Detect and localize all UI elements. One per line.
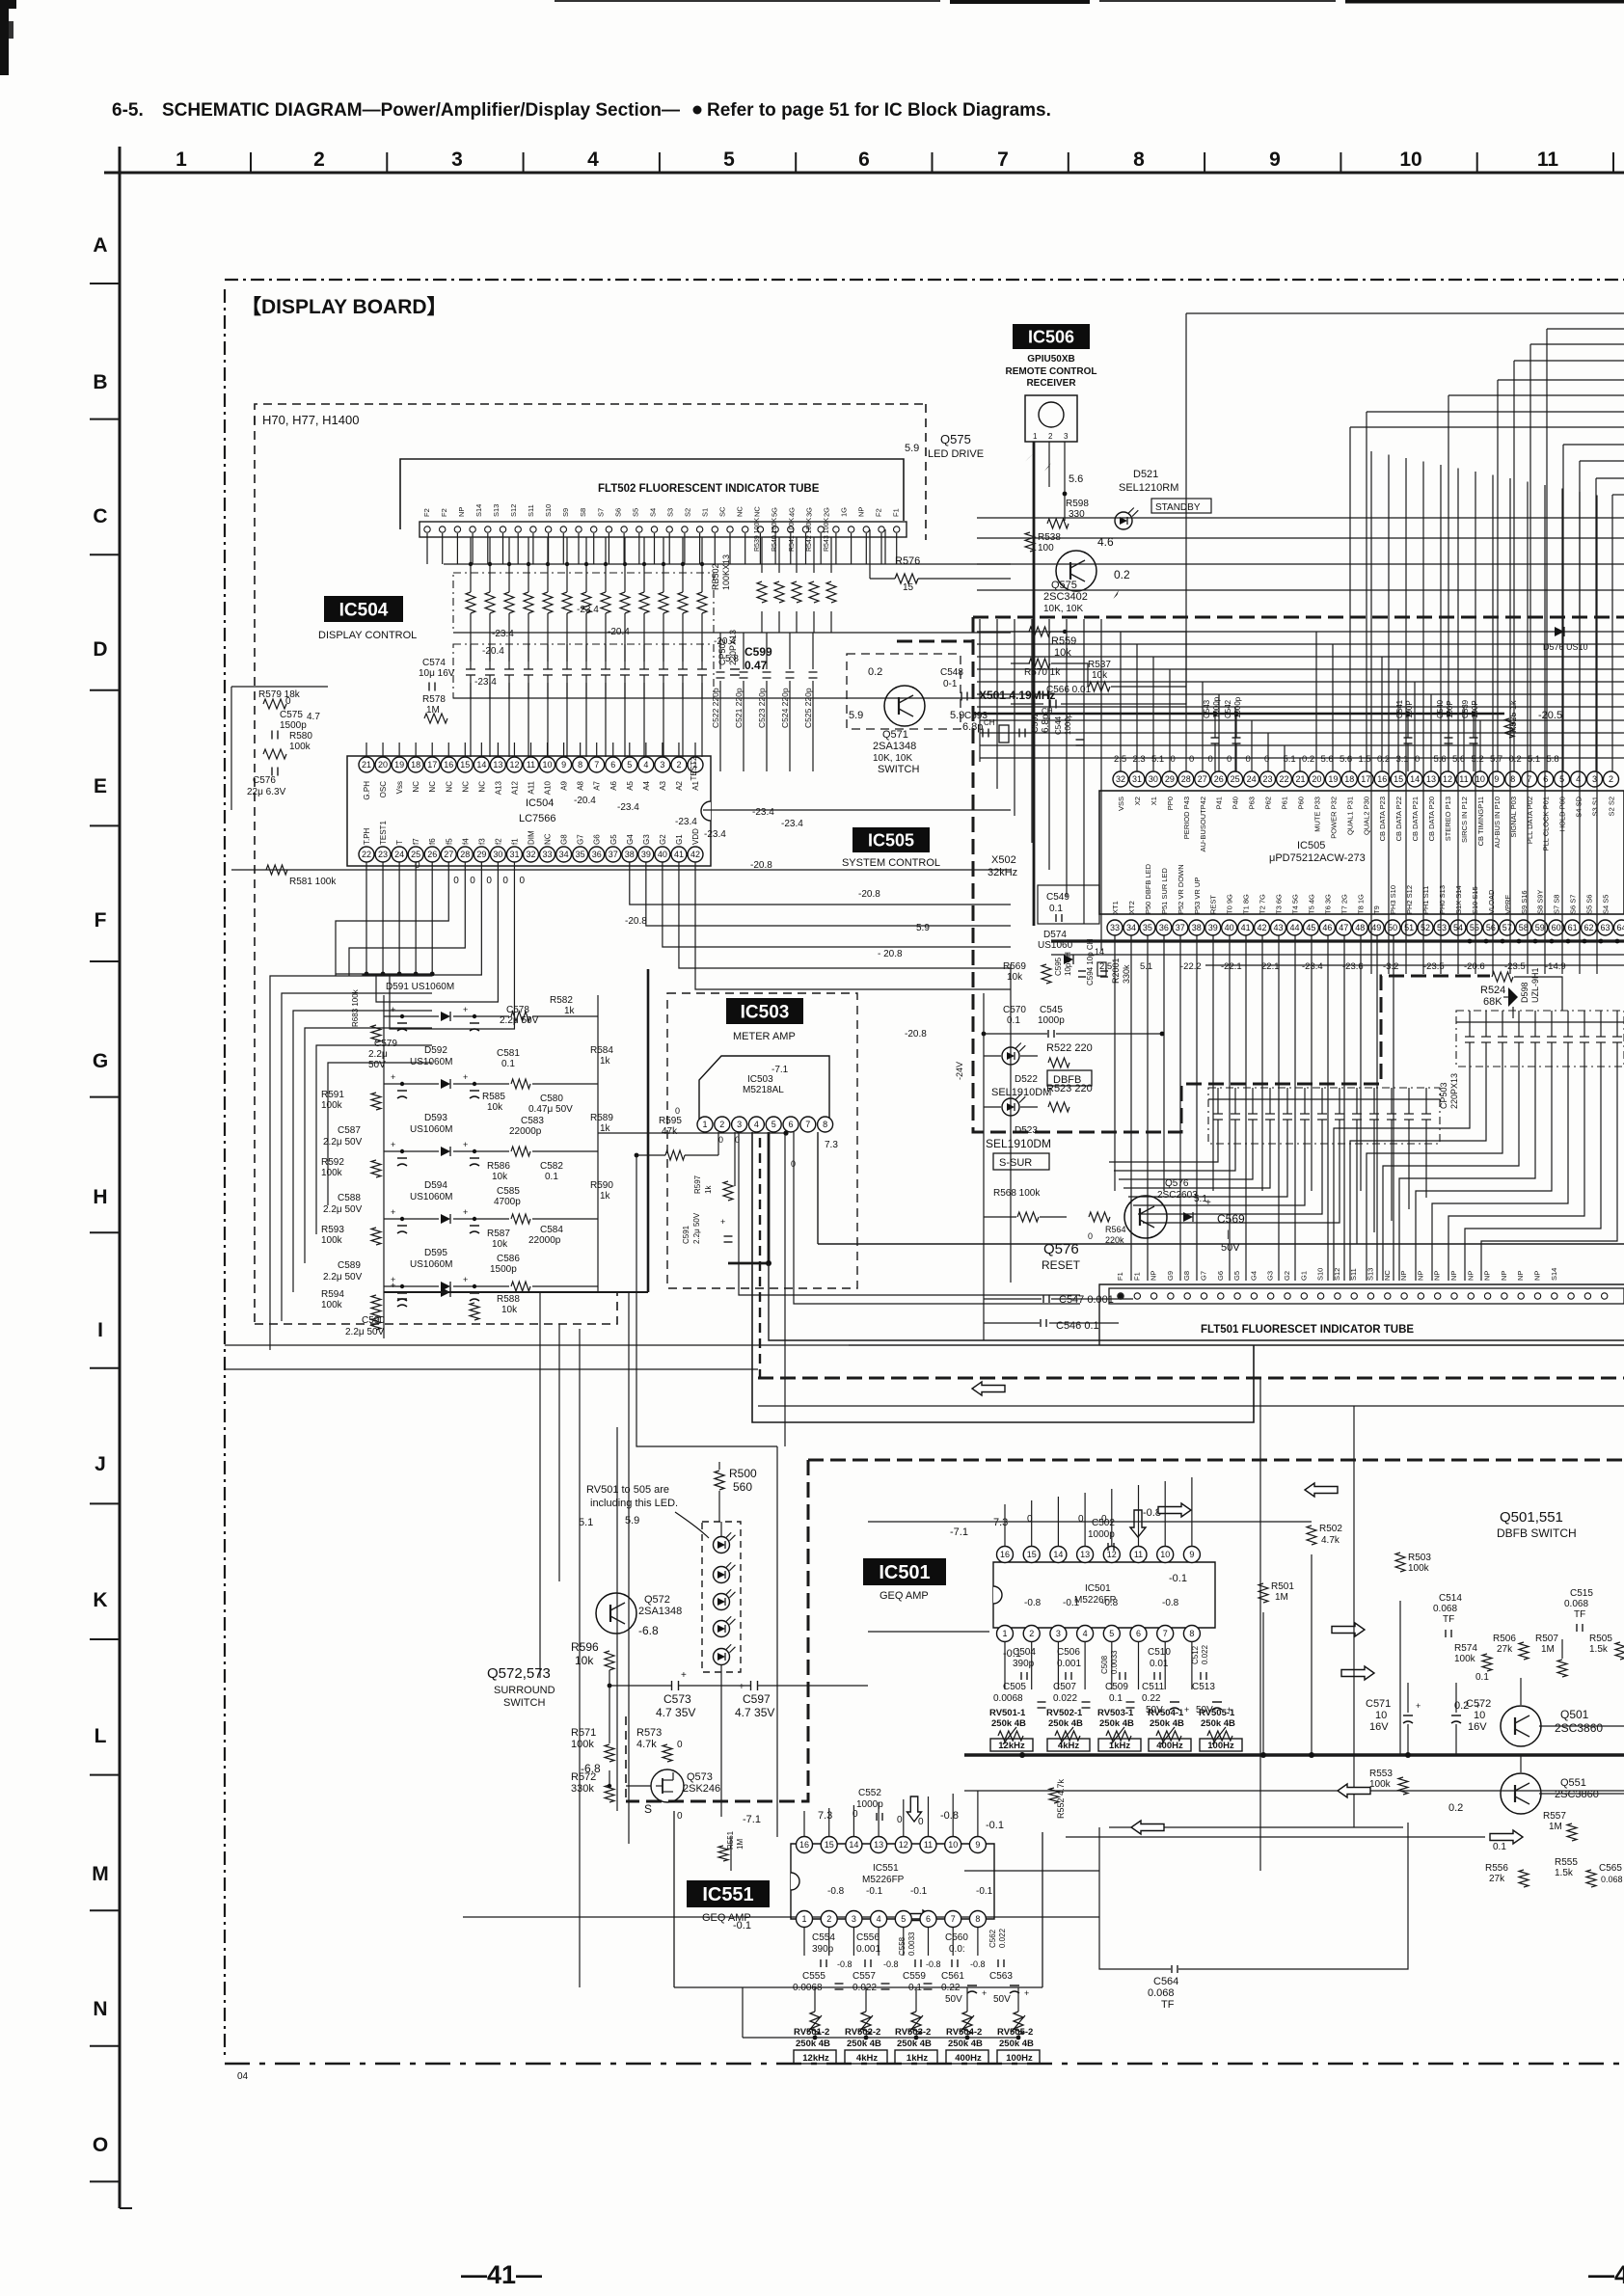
svg-text:C583: C583	[521, 1116, 544, 1126]
svg-text:-0.8: -0.8	[1162, 1598, 1179, 1608]
svg-text:11: 11	[1459, 774, 1468, 784]
svg-text:NC: NC	[477, 781, 486, 793]
wire nest horizontal	[1367, 411, 1624, 413]
svg-text:2: 2	[1048, 432, 1053, 441]
svg-text:—4: —4	[1588, 2260, 1624, 2289]
svg-text:-0.8: -0.8	[926, 1959, 941, 1969]
svg-text:-20.4: -20.4	[714, 636, 736, 647]
C549 box	[1038, 885, 1099, 924]
svg-text:NP: NP	[857, 507, 866, 517]
svg-text:2.2μ 50V: 2.2μ 50V	[345, 1327, 385, 1337]
long vertical right of IC501 box	[1259, 1378, 1261, 1871]
potentiometer RV504-1	[1156, 1731, 1181, 1741]
svg-text:GEQ AMP: GEQ AMP	[880, 1590, 929, 1602]
svg-text:12kHz: 12kHz	[998, 1741, 1025, 1751]
LED D523	[1002, 1098, 1019, 1116]
svg-text:0.022: 0.022	[1053, 1693, 1077, 1704]
svg-text:H70, H77, H1400: H70, H77, H1400	[262, 413, 359, 427]
svg-text:I: I	[97, 1319, 103, 1341]
wire nest vertical	[1579, 461, 1581, 771]
svg-text:QUAL2 P30: QUAL2 P30	[1362, 797, 1370, 835]
svg-text:METER AMP: METER AMP	[733, 1031, 796, 1042]
svg-text:G2: G2	[659, 834, 667, 845]
IC504 label	[324, 596, 403, 622]
svg-text:C576: C576	[253, 775, 276, 786]
svg-text:+: +	[463, 1207, 468, 1217]
svg-text:C544: C544	[1054, 716, 1063, 735]
svg-text:220PX13: 220PX13	[1449, 1073, 1459, 1109]
svg-text:T7 2G: T7 2G	[1340, 894, 1348, 914]
svg-text:0.1: 0.1	[1109, 1693, 1123, 1704]
potentiometer RV502-1	[1055, 1731, 1080, 1741]
svg-text:F1: F1	[1132, 1272, 1141, 1281]
svg-text:3G: 3G	[805, 507, 814, 517]
svg-text:S7: S7	[596, 508, 605, 517]
svg-text:T6 3G: T6 3G	[1323, 894, 1332, 914]
svg-text:C584: C584	[540, 1225, 563, 1235]
svg-text:P60: P60	[1296, 797, 1305, 809]
svg-text:12kHz: 12kHz	[802, 2053, 829, 2064]
scan artifact top edge line	[555, 0, 940, 2]
svg-text:TF: TF	[1574, 1609, 1585, 1620]
svg-text:5: 5	[771, 1120, 776, 1129]
svg-text:Refer to page 51 for IC Block: Refer to page 51 for IC Block Diagrams.	[707, 100, 1051, 121]
resistor R581	[266, 865, 287, 875]
svg-text:10: 10	[543, 760, 553, 770]
svg-text:S5 S6: S5 S6	[1585, 895, 1594, 914]
svg-text:C580: C580	[540, 1094, 563, 1104]
svg-text:P61: P61	[1281, 797, 1289, 809]
svg-text:F2: F2	[440, 508, 448, 517]
svg-text:0: 0	[1208, 754, 1213, 765]
svg-text:41: 41	[1241, 923, 1251, 932]
svg-text:H: H	[93, 1186, 107, 1208]
IC551 enclosure box	[673, 1811, 675, 1987]
svg-text:R557: R557	[1543, 1811, 1566, 1822]
svg-text:+: +	[1205, 1198, 1211, 1208]
ladder right connection	[598, 1132, 786, 1134]
svg-text:1.5: 1.5	[1359, 754, 1371, 765]
svg-text:- 20.8: - 20.8	[878, 949, 903, 959]
transistor Q501	[1501, 1706, 1541, 1746]
potentiometer RV503-1	[1106, 1731, 1131, 1741]
svg-text:8: 8	[975, 1914, 980, 1924]
dense verticals below IC505 to FLT501	[1114, 935, 1116, 1191]
svg-text:-0.8: -0.8	[1024, 1598, 1042, 1608]
svg-text:R522 220: R522 220	[1046, 1042, 1093, 1054]
IC505 top pin row 32..1	[1113, 771, 1128, 787]
svg-text:4kHz: 4kHz	[1058, 1741, 1079, 1751]
wire nest horizontal	[1514, 360, 1624, 362]
svg-text:+: +	[463, 1275, 468, 1284]
svg-text:C563: C563	[989, 1971, 1013, 1982]
svg-text:3: 3	[451, 149, 463, 171]
svg-text:2.2μ 50V: 2.2μ 50V	[323, 1272, 363, 1283]
svg-text:100k: 100k	[321, 1168, 343, 1178]
IC501 wires	[868, 1521, 1312, 1523]
svg-text:X501 4.19MHz: X501 4.19MHz	[979, 689, 1055, 702]
svg-text:IC504: IC504	[339, 600, 389, 620]
potentiometer RV501-1	[998, 1731, 1023, 1741]
svg-text:-20.8: -20.8	[858, 889, 880, 900]
wires between cap comb and IC504	[365, 743, 367, 757]
svg-text:NP: NP	[1449, 1271, 1458, 1281]
svg-text:R556: R556	[1485, 1863, 1508, 1874]
svg-text:R576: R576	[895, 555, 920, 567]
svg-text:1: 1	[1033, 432, 1038, 441]
svg-text:A3: A3	[659, 780, 667, 790]
svg-text:SEL1910DM: SEL1910DM	[986, 1137, 1051, 1150]
svg-text:C505: C505	[1003, 1682, 1026, 1692]
arrow right mid	[1341, 1666, 1374, 1680]
svg-text:R595: R595	[659, 1116, 682, 1126]
R502 4.7k	[1307, 1526, 1316, 1545]
svg-text:29: 29	[1165, 774, 1175, 784]
svg-text:G2: G2	[1283, 1271, 1291, 1281]
svg-text:38: 38	[1192, 923, 1202, 932]
svg-text:R594: R594	[321, 1289, 344, 1300]
svg-text:14: 14	[1410, 774, 1420, 784]
svg-text:1000p: 1000p	[1038, 1015, 1065, 1026]
svg-text:1: 1	[176, 149, 187, 171]
svg-text:IC551: IC551	[873, 1863, 899, 1874]
svg-text:330k: 330k	[571, 1783, 594, 1795]
IC501 bottom pins 1..8	[997, 1626, 1014, 1642]
svg-text:S14: S14	[474, 504, 483, 517]
resistor comb RB502 100KX13 dash-dot box	[453, 573, 714, 633]
svg-text:C572: C572	[1466, 1698, 1491, 1710]
svg-text:5: 5	[627, 760, 632, 770]
svg-text:-20.8: -20.8	[905, 1029, 927, 1040]
svg-text:4: 4	[877, 1914, 881, 1924]
svg-text:2G: 2G	[823, 507, 831, 517]
svg-text:X502: X502	[991, 854, 1016, 866]
svg-text:52: 52	[1421, 923, 1430, 932]
svg-text:L: L	[95, 1725, 107, 1747]
svg-text:AU-BUS IN P10: AU-BUS IN P10	[1493, 797, 1502, 848]
svg-text:7: 7	[997, 149, 1009, 171]
svg-text:0.2: 0.2	[1448, 1802, 1463, 1814]
svg-text:0.1: 0.1	[1007, 1015, 1020, 1026]
svg-text:R590: R590	[590, 1180, 613, 1191]
svg-text:-0.8: -0.8	[827, 1886, 845, 1897]
svg-text:2: 2	[826, 1914, 831, 1924]
svg-text:23: 23	[1263, 774, 1273, 784]
svg-text:0.001: 0.001	[856, 1944, 880, 1955]
svg-text:400Hz: 400Hz	[1156, 1741, 1183, 1751]
svg-text:22.1: 22.1	[1261, 961, 1280, 972]
S-SUR label box	[993, 1153, 1049, 1170]
wire from IC503 region down to IC551 pins	[776, 1446, 778, 1837]
svg-text:12: 12	[899, 1840, 908, 1850]
svg-text:28: 28	[460, 850, 470, 859]
R501 1M	[1259, 1583, 1268, 1603]
svg-text:A4: A4	[642, 780, 651, 790]
svg-text:0.0:: 0.0:	[949, 1944, 965, 1955]
svg-text:RV501-1: RV501-1	[989, 1708, 1026, 1718]
svg-text:NC: NC	[461, 781, 470, 793]
svg-text:21: 21	[1295, 774, 1305, 784]
svg-text:3: 3	[660, 760, 664, 770]
svg-text:C523 220p: C523 220p	[757, 688, 767, 728]
svg-text:4kHz: 4kHz	[856, 2053, 878, 2064]
svg-text:R568 100k: R568 100k	[993, 1188, 1041, 1199]
svg-text:RV501 to 505 are: RV501 to 505 are	[586, 1484, 669, 1496]
svg-text:R541 100K: R541 100K	[789, 518, 796, 552]
svg-text:Q575: Q575	[940, 432, 971, 446]
svg-text:4700p: 4700p	[494, 1197, 521, 1207]
svg-text:P41: P41	[1215, 797, 1224, 809]
svg-text:100k: 100k	[321, 1100, 343, 1111]
svg-text:R559: R559	[1051, 635, 1076, 647]
svg-text:15: 15	[1027, 1550, 1037, 1559]
svg-text:58: 58	[1519, 923, 1529, 932]
svg-text:10k: 10k	[492, 1239, 508, 1250]
svg-text:-20.4: -20.4	[574, 796, 596, 806]
IC505 label	[853, 827, 930, 852]
IC503 dashed box	[667, 993, 857, 1288]
svg-text:11: 11	[924, 1840, 933, 1850]
svg-text:C570: C570	[1003, 1005, 1026, 1015]
svg-text:CB DATA P21: CB DATA P21	[1411, 797, 1420, 841]
svg-text:T9: T9	[1372, 905, 1381, 914]
svg-text:14: 14	[849, 1840, 858, 1850]
svg-text:15: 15	[460, 760, 470, 770]
svg-text:8: 8	[578, 760, 582, 770]
C573 4.7 35V	[671, 1681, 673, 1690]
transistor Q573 2SK246	[651, 1769, 684, 1802]
svg-text:TF: TF	[1443, 1614, 1454, 1625]
svg-text:100k: 100k	[1369, 1779, 1392, 1790]
svg-text:QUAL1 P31: QUAL1 P31	[1345, 797, 1354, 835]
svg-text:PLL DATA P02: PLL DATA P02	[1526, 797, 1534, 844]
svg-text:27k: 27k	[1497, 1644, 1513, 1655]
svg-text:-3.2: -3.2	[1383, 961, 1398, 972]
svg-text:5: 5	[723, 149, 735, 171]
svg-text:D592: D592	[424, 1045, 447, 1056]
FLT502 fluorescent indicator tube box	[400, 459, 904, 529]
transistor Q571	[884, 686, 925, 726]
svg-text:15: 15	[825, 1840, 834, 1850]
svg-text:Q551: Q551	[1560, 1777, 1586, 1789]
svg-text:R571: R571	[571, 1727, 596, 1739]
svg-text:R683 100k: R683 100k	[351, 988, 360, 1027]
svg-text:39: 39	[1208, 923, 1218, 932]
svg-text:C579: C579	[374, 1039, 397, 1049]
svg-text:US1060M: US1060M	[410, 1124, 452, 1135]
LED D522	[1002, 1047, 1019, 1065]
svg-text:37: 37	[1176, 923, 1185, 932]
svg-text:0: 0	[1246, 754, 1251, 765]
svg-text:RV501-2: RV501-2	[794, 2027, 829, 2038]
svg-text:22000p: 22000p	[509, 1126, 542, 1137]
R500 560	[715, 1471, 724, 1490]
svg-text:S10: S10	[1316, 1268, 1325, 1281]
svg-text:+: +	[1184, 1705, 1189, 1715]
svg-text:NC: NC	[735, 506, 744, 517]
svg-text:20: 20	[1312, 774, 1321, 784]
svg-text:C589: C589	[338, 1260, 361, 1271]
left vertical bus wires under IC504	[335, 974, 337, 976]
svg-text:36: 36	[1159, 923, 1169, 932]
svg-text:SC: SC	[717, 506, 726, 517]
thick L wires from IC503 down	[752, 1345, 1254, 1422]
amplifier long wires	[964, 1790, 1624, 1792]
svg-text:S7 S8: S7 S8	[1553, 895, 1561, 914]
svg-text:13: 13	[1426, 774, 1436, 784]
svg-text:+: +	[1416, 1701, 1421, 1711]
svg-text:1: 1	[702, 1120, 707, 1129]
svg-text:DISPLAY CONTROL: DISPLAY CONTROL	[318, 630, 417, 641]
svg-text:32: 32	[526, 850, 535, 859]
vertical from ladder to IC551	[628, 1292, 630, 1844]
svg-text:R506: R506	[1493, 1634, 1516, 1644]
LED 5 in RV block	[714, 1649, 730, 1665]
svg-text:0.1: 0.1	[1475, 1672, 1489, 1683]
svg-text:A12: A12	[510, 780, 519, 795]
diode ladder row 4	[441, 1214, 450, 1224]
svg-text:5.9: 5.9	[950, 710, 964, 721]
transistor Q572	[596, 1593, 636, 1634]
svg-text:R524: R524	[1480, 985, 1505, 996]
IC504 body	[347, 756, 711, 866]
svg-text:0.1: 0.1	[501, 1059, 515, 1069]
svg-text:100k: 100k	[571, 1739, 594, 1750]
svg-text:R589: R589	[590, 1113, 613, 1123]
svg-text:400Hz: 400Hz	[955, 2053, 982, 2064]
svg-text:US1060M: US1060M	[410, 1057, 452, 1067]
svg-text:250k 4B: 250k 4B	[897, 2039, 932, 2049]
svg-text:P40: P40	[1232, 797, 1240, 809]
svg-text:1k: 1k	[600, 1056, 611, 1067]
svg-text:R552 4.7k: R552 4.7k	[1056, 1778, 1066, 1819]
wires below IC504 right staircase	[630, 862, 1011, 905]
svg-text:0: 0	[897, 1815, 903, 1825]
wire nest horizontal	[1596, 477, 1624, 479]
svg-text:D594: D594	[424, 1180, 447, 1191]
block arrow right of IC551	[1490, 1830, 1523, 1844]
svg-text:0.022: 0.022	[1201, 1644, 1209, 1664]
surround wires	[609, 1685, 671, 1687]
svg-text:43: 43	[1273, 923, 1283, 932]
svg-text:G8: G8	[1182, 1271, 1191, 1281]
svg-text:RV502-2: RV502-2	[845, 2027, 880, 2038]
svg-text:X2: X2	[1133, 797, 1142, 805]
IC504 top pin row 21..1	[359, 757, 374, 772]
svg-text:Q576: Q576	[1165, 1178, 1189, 1189]
svg-text:G3: G3	[1266, 1271, 1275, 1281]
svg-text:RB502: RB502	[711, 563, 720, 590]
potentiometer RV505-2	[1014, 2012, 1023, 2035]
svg-text:5.9: 5.9	[625, 1515, 639, 1526]
svg-text:NP: NP	[1433, 1271, 1442, 1281]
svg-text:G8: G8	[560, 834, 569, 845]
diode ladder row 3	[441, 1147, 450, 1156]
svg-text:45: 45	[1306, 923, 1315, 932]
transistor Q551	[1501, 1773, 1541, 1814]
svg-text:+: +	[463, 1072, 468, 1082]
svg-text:-6.8: -6.8	[638, 1624, 659, 1637]
svg-text:IC503: IC503	[747, 1074, 773, 1085]
svg-text:3: 3	[1064, 432, 1069, 441]
svg-text:2: 2	[719, 1120, 724, 1129]
svg-text:39: 39	[641, 850, 651, 859]
FLT501 fluorescent indicator tube	[1099, 1284, 1624, 1345]
svg-text:0.0068: 0.0068	[993, 1693, 1023, 1704]
svg-text:10: 10	[1475, 774, 1485, 784]
svg-text:XT1: XT1	[1111, 901, 1120, 914]
svg-text:0.068: 0.068	[1564, 1599, 1588, 1609]
svg-text:C525 220p: C525 220p	[803, 688, 813, 728]
svg-text:C565: C565	[1599, 1863, 1622, 1874]
wires IC504 to right bus	[703, 809, 1011, 811]
IC504 bottom pin row 22..42	[359, 847, 374, 862]
svg-text:C557: C557	[853, 1971, 876, 1982]
wire nest horizontal	[1350, 426, 1624, 428]
svg-text:1500p: 1500p	[490, 1264, 517, 1275]
svg-text:P50 DBFB LED: P50 DBFB LED	[1144, 863, 1152, 914]
svg-text:C582: C582	[540, 1161, 563, 1172]
svg-text:S6 S7: S6 S7	[1569, 895, 1578, 914]
wire nest horizontal	[1498, 379, 1624, 381]
svg-text:0.1: 0.1	[1493, 1842, 1506, 1852]
svg-text:F2: F2	[422, 508, 431, 517]
svg-text:Vss: Vss	[395, 781, 404, 794]
svg-text:Q572,573: Q572,573	[487, 1665, 551, 1682]
svg-text:R593: R593	[321, 1225, 344, 1235]
svg-text:AU-BUSOUTP42: AU-BUSOUTP42	[1199, 797, 1207, 852]
svg-text:SEL1910DM: SEL1910DM	[991, 1087, 1051, 1098]
svg-text:26: 26	[1214, 774, 1224, 784]
svg-text:5: 5	[901, 1914, 906, 1924]
svg-text:C554: C554	[812, 1932, 835, 1943]
svg-text:47k: 47k	[662, 1126, 678, 1137]
svg-text:S13: S13	[492, 504, 501, 517]
svg-text:R507: R507	[1535, 1634, 1558, 1644]
svg-text:1k: 1k	[600, 1191, 611, 1202]
svg-text:C522 220p: C522 220p	[711, 688, 720, 728]
svg-text:SEL1210RM: SEL1210RM	[1119, 482, 1178, 494]
svg-text:0: 0	[718, 1135, 723, 1145]
svg-text:+: +	[391, 1072, 395, 1082]
svg-text:0.068: 0.068	[1148, 1987, 1175, 1999]
svg-text:P63: P63	[1248, 797, 1257, 809]
svg-text:C539: C539	[1461, 699, 1470, 718]
svg-text:0.068: 0.068	[1433, 1604, 1457, 1614]
svg-text:D595: D595	[424, 1248, 447, 1258]
svg-text:T5 4G: T5 4G	[1307, 894, 1315, 914]
svg-text:22μ 6.3V: 22μ 6.3V	[247, 787, 286, 797]
svg-text:-23.4: -23.4	[474, 677, 497, 688]
svg-text:25: 25	[1231, 774, 1240, 784]
svg-text:0-1: 0-1	[943, 679, 958, 689]
ladder vertical rails	[383, 995, 385, 1338]
svg-text:-23.4: -23.4	[704, 829, 726, 840]
svg-text:REMOTE CONTROL: REMOTE CONTROL	[1006, 366, 1097, 377]
svg-text:5.8: 5.8	[725, 654, 739, 664]
svg-text:RV504-2: RV504-2	[946, 2027, 982, 2038]
svg-text:R2001: R2001	[1111, 958, 1121, 984]
long horizontal bus wires above IC505	[977, 631, 1624, 633]
svg-text:0.22: 0.22	[1142, 1693, 1161, 1704]
svg-text:LC7566: LC7566	[519, 813, 556, 824]
svg-text:3: 3	[1056, 1629, 1061, 1638]
svg-text:0: 0	[918, 1817, 924, 1827]
svg-text:R564: R564	[1105, 1225, 1126, 1234]
svg-text:0: 0	[486, 876, 492, 886]
svg-text:R592: R592	[321, 1157, 344, 1168]
svg-text:T0 9G: T0 9G	[1226, 894, 1234, 914]
